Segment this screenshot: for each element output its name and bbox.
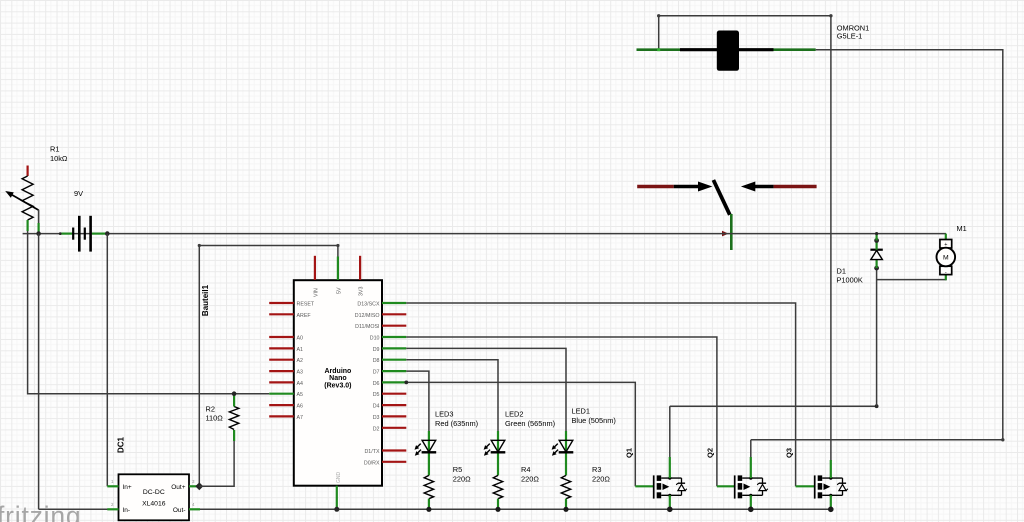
svg-text:D12/MISO: D12/MISO: [355, 313, 380, 319]
svg-text:220Ω: 220Ω: [453, 474, 471, 483]
relay coil right black lead: [739, 48, 774, 51]
svg-text:GND: GND: [336, 472, 342, 484]
wire: relay coil top bracket: [659, 16, 831, 50]
battery BAT1 9V: [59, 189, 106, 252]
svg-text:Red (635nm): Red (635nm): [435, 419, 478, 428]
D1 top green lead: [875, 241, 877, 250]
svg-text:D10: D10: [370, 336, 380, 342]
potentiometer R1 10k: [5, 145, 68, 233]
pin A7: [269, 415, 294, 417]
svg-text:R1: R1: [50, 145, 59, 154]
svg-text:Bauteil1: Bauteil1: [201, 284, 210, 316]
Q1 channel pads: [657, 475, 662, 481]
wire: Out+ to R2 bottom: [199, 441, 234, 486]
pin A4: [269, 381, 294, 383]
DC1 Out+ green pin: [189, 485, 199, 487]
pin A1: [269, 347, 294, 349]
wire: coil right to Q2 drain net: [751, 50, 1003, 440]
DC1 In+ green pin: [107, 485, 118, 487]
3V3 red pin: [359, 256, 361, 280]
MOSFET Q3: [785, 448, 848, 512]
diode D1 P1000K: [837, 232, 883, 285]
DC1 In- green pin: [107, 508, 118, 510]
svg-text:XL4016: XL4016: [142, 501, 166, 508]
wire: ground rail y=509.3: [39, 508, 831, 510]
wire: D1 vertical: [876, 268, 878, 406]
Q1 gate bar: [653, 475, 655, 498]
junction dot pot wiper / ground: [36, 231, 41, 236]
LED3 emission arrows: [417, 444, 421, 448]
right pins block: [355, 302, 407, 467]
junction diamond at Out+: [195, 482, 203, 490]
svg-text:In-: In-: [123, 507, 131, 514]
svg-text:Out+: Out+: [171, 484, 185, 491]
battery plate tall 1: [78, 216, 81, 252]
pin D9: [382, 347, 406, 349]
D1 bottom junction dot: [874, 266, 879, 271]
Arduino Nano U1: [294, 256, 382, 509]
svg-text:Blue (505nm): Blue (505nm): [572, 416, 616, 425]
M1 top green pin: [945, 234, 947, 240]
svg-text:A4: A4: [297, 381, 304, 387]
junction dot R4 ground: [495, 507, 500, 512]
svg-text:A0: A0: [297, 336, 304, 342]
svg-text:A2: A2: [297, 358, 304, 364]
resistor R2 110ohm: [206, 395, 239, 442]
Q1 body arrow: [663, 484, 670, 491]
svg-text:In+: In+: [123, 484, 132, 491]
M1 top terminal box: [940, 240, 952, 249]
svg-text:D6: D6: [373, 381, 380, 387]
MOSFET Q1: [625, 406, 687, 512]
wire: main horizontal rail y=233.6 (battery+ to motor): [23, 233, 946, 235]
wire: relay common vertical (coil top to Q3 drain): [830, 16, 832, 461]
Q1 drain link: [661, 477, 681, 479]
svg-text:Q3: Q3: [785, 448, 794, 458]
Q3 drain green pin: [830, 460, 832, 478]
svg-text:R5: R5: [453, 465, 462, 474]
R3 bottom green pin: [565, 499, 567, 510]
svg-text:Nano: Nano: [329, 375, 347, 382]
svg-text:D1: D1: [837, 267, 846, 276]
battery right green lead: [92, 233, 106, 235]
Q2 source vertical: [750, 495, 752, 509]
LED3 cathode bar: [422, 451, 437, 453]
pin D7: [382, 370, 406, 372]
svg-text:Out-: Out-: [173, 507, 186, 514]
svg-text:110Ω: 110Ω: [206, 414, 224, 423]
junction dot R5 ground: [426, 507, 431, 512]
svg-text:D13/SCX: D13/SCX: [357, 302, 380, 308]
Q2 drain link: [742, 477, 762, 479]
R1 wiper arrow: [11, 194, 39, 210]
svg-text:P1000K: P1000K: [837, 276, 863, 285]
wire: D10 to Q2 gate: [406, 337, 717, 486]
LED1 triangle: [559, 440, 573, 452]
Q3 source link: [822, 494, 842, 496]
wire: 5V net (Bauteil1 top to Arduino 5V): [199, 246, 338, 487]
R1 wiper green drop: [38, 210, 40, 223]
R2 bottom green pin: [233, 430, 235, 441]
wire: motor bottom branch: [877, 276, 946, 280]
R1 bottom green pin: [27, 220, 29, 231]
D1 triangle: [871, 250, 883, 259]
LED1 emission arrows: [554, 444, 558, 448]
switch armature: [713, 180, 729, 215]
relay switch contacts: [637, 180, 816, 250]
wire: pot bottom down to A5 row: [28, 231, 270, 394]
pin D8: [382, 359, 406, 361]
LED1 green lead through: [565, 431, 567, 475]
pin A3: [269, 370, 294, 372]
LED3 green lead through: [428, 431, 430, 475]
svg-text:Arduino: Arduino: [324, 368, 351, 375]
svg-text:-: -: [945, 270, 947, 276]
Q1 source link: [661, 494, 681, 496]
Q1 source vertical: [669, 495, 671, 509]
D1 bottom green lead: [875, 259, 877, 268]
pin D2: [382, 427, 406, 429]
pin AREF: [269, 313, 294, 315]
svg-text:A5: A5: [297, 392, 304, 398]
junction dot R2 top on A5 wire: [232, 391, 237, 396]
pin RESET: [269, 302, 294, 304]
Q3 gate bar: [814, 475, 816, 498]
svg-text:Q1: Q1: [625, 448, 634, 458]
Q2 body diode: [762, 478, 764, 484]
svg-text:D0/RX: D0/RX: [364, 460, 380, 466]
pin D12/MISO: [382, 313, 406, 315]
Q2 channel pads: [738, 475, 743, 481]
svg-text:G5LE-1: G5LE-1: [837, 32, 862, 41]
switch left arrow: [674, 185, 699, 189]
relay K1 coil (OMRON1 G5LE-1): [637, 31, 816, 71]
wire: D9 to LED1: [406, 348, 566, 432]
svg-text:LED2: LED2: [505, 410, 524, 419]
R1 zigzag body: [22, 176, 33, 220]
pin tick relay coil left: [657, 48, 660, 51]
battery plate short 2: [84, 228, 86, 240]
svg-text:DC-DC: DC-DC: [143, 489, 165, 496]
GND green pin: [336, 486, 338, 510]
pin D0/RX: [382, 461, 406, 463]
LED3 red: [415, 410, 479, 476]
LED2 green lead through: [497, 431, 499, 475]
wire: D8 to LED2: [406, 360, 498, 432]
VIN red pin: [314, 256, 316, 280]
svg-text:3V3: 3V3: [359, 287, 365, 296]
Q3 body diode: [842, 478, 844, 484]
Q2 body arrow: [744, 484, 751, 491]
wire: relay coil right green lead: [774, 48, 816, 51]
junction dot R3 ground: [563, 507, 568, 512]
battery plate tall 2: [89, 216, 92, 252]
LED1 cathode bar: [559, 451, 574, 453]
pin A6: [269, 404, 294, 406]
svg-text:220Ω: 220Ω: [521, 474, 539, 483]
wire: battery+ down to DC-DC In+: [106, 234, 108, 487]
svg-text:A3: A3: [297, 370, 304, 376]
DC-DC converter DC1 XL4016: [107, 436, 200, 520]
pin D4: [382, 404, 406, 406]
svg-text:10kΩ: 10kΩ: [50, 154, 68, 163]
wire: D7 to LED3: [406, 371, 429, 432]
LED2 emission arrows: [486, 444, 490, 448]
svg-text:LED3: LED3: [435, 410, 454, 419]
relay coil body: [717, 31, 739, 71]
pin D10: [382, 336, 406, 338]
svg-text:9V: 9V: [74, 189, 83, 198]
Q1 drain vertical: [669, 457, 671, 478]
switch right arrow: [741, 182, 755, 192]
Q1 body diode: [681, 478, 683, 484]
D1 top junction dot: [874, 238, 879, 243]
svg-text:D8: D8: [373, 358, 380, 364]
svg-text:A6: A6: [297, 404, 304, 410]
svg-text:Green (565nm): Green (565nm): [505, 419, 555, 428]
DC1 Out- green pin: [189, 508, 200, 510]
left pins block: [269, 302, 315, 421]
svg-text:220Ω: 220Ω: [592, 474, 610, 483]
pin D1/TX: [382, 449, 406, 451]
svg-text:RESET: RESET: [297, 302, 315, 308]
svg-text:D2: D2: [373, 426, 380, 432]
Q3 gate green lead: [796, 485, 815, 487]
Q3 source vertical: [830, 495, 832, 509]
pin A5 (green connected): [269, 393, 294, 395]
relay coil left black lead: [680, 48, 717, 51]
resistor R5: [424, 465, 471, 512]
junction arrow on wire at switch: [722, 231, 729, 237]
svg-text:R3: R3: [592, 465, 601, 474]
wire: relay coil left green lead: [637, 48, 681, 51]
R2 zigzag: [229, 407, 238, 430]
switch right fixed contact (dark red): [774, 185, 817, 189]
D1 cathode bar: [870, 249, 882, 251]
pin D6: [382, 381, 406, 383]
Q3 channel pads: [818, 475, 823, 481]
M1 bottom terminal box: [940, 266, 952, 274]
Q3 drain link: [822, 477, 842, 479]
svg-text:Q2: Q2: [706, 448, 715, 458]
svg-text:5V: 5V: [337, 287, 343, 294]
switch left fixed contact (dark red): [637, 185, 674, 189]
pin D13/SCX: [382, 302, 406, 304]
R4 bottom green pin: [497, 499, 499, 510]
svg-text:D9: D9: [373, 347, 380, 353]
svg-text:VIN: VIN: [314, 288, 320, 297]
LED2 cathode bar: [491, 451, 506, 453]
resistor R4: [493, 465, 539, 512]
svg-text:R4: R4: [521, 465, 530, 474]
svg-text:AREF: AREF: [297, 313, 312, 319]
svg-text:DC1: DC1: [117, 436, 126, 453]
pin A0: [269, 336, 294, 338]
motor M1: [937, 224, 967, 276]
Q2 source link: [742, 494, 762, 496]
Arduino box: [294, 280, 382, 486]
svg-text:A7: A7: [297, 415, 304, 421]
battery plate short 1: [72, 228, 74, 240]
svg-text:D1/TX: D1/TX: [364, 449, 379, 455]
wire: Q1 drain to D1: [670, 405, 877, 407]
DC1 box: [119, 474, 190, 520]
LED2 green: [484, 410, 556, 476]
R5 bottom green pin: [428, 499, 430, 510]
svg-text:D11/MOSI: D11/MOSI: [355, 324, 379, 330]
Q2 drain vertical: [750, 457, 752, 478]
LED3 triangle: [422, 440, 436, 452]
Q2 gate green lead: [717, 485, 735, 487]
svg-text:fritzing: fritzing: [0, 501, 81, 522]
pin D3: [382, 415, 406, 417]
svg-text:D7: D7: [373, 370, 380, 376]
R1 top red pin: [27, 166, 29, 177]
LED2 triangle: [491, 440, 505, 452]
LED1 blue: [552, 407, 616, 476]
wire: D13 to Q3 gate: [406, 303, 795, 486]
svg-text:D3: D3: [373, 415, 380, 421]
R2 top green pin: [233, 395, 235, 407]
M1 circle: [937, 248, 956, 267]
pin A2: [269, 359, 294, 361]
Q1 gate green lead: [635, 485, 653, 487]
Q3 body arrow: [824, 484, 831, 491]
Q2 gate bar: [734, 475, 736, 498]
wire: D6 to Q1 gate: [406, 382, 635, 486]
5V green pin: [337, 257, 339, 281]
wire: left ground drop x=38.6: [38, 234, 40, 510]
pin D5: [382, 393, 406, 395]
svg-text:LED1: LED1: [572, 407, 591, 416]
R5 zigzag: [424, 475, 433, 498]
battery left green lead: [60, 233, 73, 235]
junction dot battery+: [105, 231, 110, 236]
svg-text:M1: M1: [957, 224, 967, 233]
svg-text:D4: D4: [373, 404, 380, 410]
svg-text:D5: D5: [373, 392, 380, 398]
svg-text:(Rev3.0): (Rev3.0): [324, 382, 351, 389]
pin D11/MOSI: [382, 325, 406, 327]
MOSFET Q2: [706, 440, 768, 512]
resistor R3: [561, 465, 610, 512]
svg-text:M: M: [943, 255, 949, 262]
junction dot GND pin on rail: [334, 507, 339, 512]
switch common green pin: [730, 214, 733, 250]
svg-text:R2: R2: [206, 405, 215, 414]
D1 stub to main wire: [875, 234, 877, 241]
R3 zigzag: [561, 475, 570, 498]
svg-text:A1: A1: [297, 347, 304, 353]
R4 zigzag: [493, 475, 502, 498]
